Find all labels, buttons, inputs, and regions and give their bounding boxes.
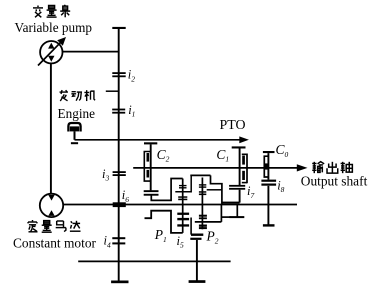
- wire link to C1 drum lower bar: [221, 216, 230, 218]
- label 定量马达 (Constant motor, Chinese): [28, 220, 80, 232]
- svg-text:P2: P2: [206, 229, 219, 246]
- wire engine crankshaft / PTO line: [75, 139, 241, 141]
- PTO arrowhead: [239, 136, 249, 143]
- engine piston block: [70, 126, 79, 131]
- clutch C1 comb wall and drum shaft: [242, 154, 247, 183]
- wire hydrostatic line pump to motor: [50, 63, 52, 194]
- P2 lower carrier link: [195, 221, 222, 223]
- svg-text:C1: C1: [216, 147, 229, 164]
- C0 drum shaft bottom end bar: [263, 224, 275, 226]
- gear i6 junction block: [113, 202, 126, 207]
- P2 output shaft vertical: [196, 240, 198, 281]
- wire upper gearbox shaft / output shaft line: [133, 167, 297, 169]
- svg-text:i5: i5: [177, 234, 184, 250]
- motor flow triangle bottom: [48, 210, 54, 216]
- wire P2 carrier lower vertical: [220, 205, 222, 222]
- svg-text:Constant motor: Constant motor: [13, 237, 96, 252]
- clutch C1 stem: [239, 149, 241, 186]
- wire C1 stem lower continuation: [239, 190, 241, 203]
- P1 planet gear upper pair: [179, 185, 187, 186]
- gear i2: [112, 72, 125, 74]
- svg-text:C2: C2: [157, 147, 170, 164]
- clutch C0 tooth upper: [265, 163, 268, 169]
- P2 planet gear upper pair: [199, 184, 206, 185]
- clutch C2 tooth upper: [147, 153, 150, 162]
- P2 sun shaft vertical: [201, 178, 203, 230]
- P2 carrier link line: [207, 189, 222, 191]
- svg-text:Variable pump: Variable pump: [15, 21, 93, 36]
- constant motor symbol circle: [40, 194, 63, 217]
- P1 lower carrier bracket: [145, 211, 183, 233]
- P2 lower gear bars: [199, 215, 207, 217]
- engine connecting rod: [74, 131, 76, 139]
- input shaft top end bar: [112, 27, 125, 29]
- svg-text:Output shaft: Output shaft: [301, 174, 368, 189]
- wire main output shaft horizontal: [63, 204, 297, 206]
- C1 drum lower end bar: [229, 216, 244, 218]
- P2 sun gear pair: [199, 191, 206, 193]
- P1 planet shaft vertical: [182, 179, 184, 233]
- wire pump output to input shaft: [62, 51, 119, 53]
- P1 lower mirror gear bars: [177, 213, 189, 215]
- clutch C2 tooth lower: [147, 170, 150, 178]
- P1 sun gear pair: [178, 196, 187, 198]
- engine crank end bar: [71, 142, 78, 144]
- pump variable-displacement arrow shaft: [38, 41, 62, 65]
- clutch C1 top bar: [232, 146, 246, 148]
- svg-text:i2: i2: [128, 68, 135, 84]
- label 变量泵 (Variable pump, Chinese): [33, 5, 70, 17]
- wire C2 staircase to P1 planet shaft: [151, 179, 182, 201]
- clutch C2 stem: [150, 144, 152, 190]
- label 输出轴 (Output shaft, Chinese): [312, 162, 352, 174]
- P2 lower carrier wall: [190, 218, 192, 235]
- gear i3: [113, 171, 126, 173]
- engine piston symbol cylinder: [68, 123, 80, 132]
- svg-text:i3: i3: [102, 167, 109, 183]
- clutch C2 top bar: [144, 142, 157, 144]
- gear i1: [112, 109, 125, 111]
- clutch C1 comb bottom hook: [242, 182, 247, 184]
- P2 ring top bar: [190, 174, 210, 176]
- svg-text:PTO: PTO: [220, 118, 246, 133]
- input shaft vertical: [118, 28, 120, 281]
- wire C1 drum lower vertical: [236, 205, 238, 218]
- C0 drum shaft vertical: [267, 186, 269, 225]
- gear i7: [229, 185, 245, 187]
- svg-text:C0: C0: [276, 142, 289, 159]
- gear i4: [112, 237, 125, 239]
- variable pump symbol circle: [40, 41, 62, 63]
- clutch C2 comb wall: [144, 152, 150, 182]
- P2 ring step down to C-link: [211, 175, 222, 204]
- svg-text:i7: i7: [247, 184, 254, 200]
- svg-text:i6: i6: [122, 188, 129, 204]
- pump flow triangle bottom: [48, 56, 54, 62]
- P2 output shaft top bar: [190, 238, 201, 240]
- pump flow triangle top: [48, 43, 54, 49]
- clutch C1 tooth lower: [242, 171, 245, 180]
- gear mesh tick at pump branch: [106, 90, 119, 92]
- clutch C0 comb wall: [264, 156, 268, 177]
- P1 carrier line: [175, 175, 191, 191]
- P2 ring lower bar: [191, 234, 203, 236]
- wire lower frame line: [78, 260, 230, 262]
- gear i8: [261, 180, 276, 182]
- P2 output shaft bottom end bar: [189, 280, 206, 283]
- label 发动机 (Engine, Chinese): [60, 90, 96, 101]
- svg-text:i4: i4: [104, 234, 111, 250]
- pump variable-displacement arrowhead: [57, 37, 66, 46]
- clutch C0 stem: [267, 153, 269, 180]
- C1 drum link bar above main shaft: [222, 202, 240, 204]
- svg-text:i8: i8: [277, 178, 284, 194]
- input shaft bottom end bar: [111, 281, 128, 284]
- clutch C1 tooth upper: [242, 156, 245, 165]
- clutch C0 top bar: [263, 151, 275, 153]
- svg-text:P1: P1: [154, 227, 167, 244]
- output shaft arrowhead: [297, 164, 308, 171]
- svg-text:i1: i1: [128, 103, 135, 119]
- motor flow triangle top: [48, 195, 54, 201]
- svg-text:Engine: Engine: [58, 107, 96, 122]
- gear on C2 drum: [144, 190, 159, 192]
